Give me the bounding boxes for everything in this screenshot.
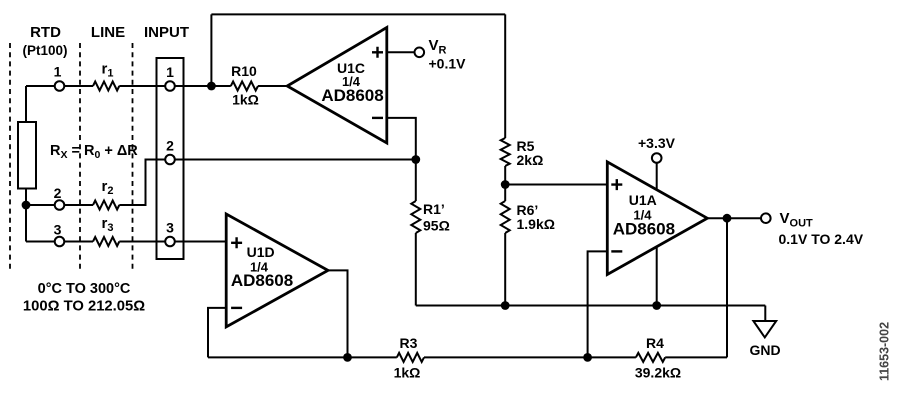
svg-text:RTD: RTD — [30, 24, 61, 41]
svg-text:R3: R3 — [400, 335, 418, 351]
svg-text:1.9kΩ: 1.9kΩ — [517, 216, 555, 232]
wire R10 left lead — [211, 85, 230, 87]
U1A plus sign — [611, 179, 622, 190]
terminal circle RTD 2 — [55, 200, 65, 210]
svg-text:11653-002: 11653-002 — [878, 322, 892, 381]
terminal circle RTD 3 — [55, 237, 65, 247]
svg-text:AD8608: AD8608 — [613, 220, 675, 239]
wire pin 1 to node A — [175, 85, 212, 87]
svg-text:AD8608: AD8608 — [231, 271, 293, 290]
op-amp U1D (right-pointing) — [226, 214, 328, 327]
svg-text:100Ω TO 212.05Ω: 100Ω TO 212.05Ω — [23, 299, 145, 315]
U1C plus sign — [372, 47, 383, 58]
terminal circle INPUT pin 3 — [165, 237, 175, 247]
resistor R10 — [231, 82, 258, 91]
wire top loop horizontal — [211, 13, 505, 15]
svg-text:U1D: U1D — [247, 244, 275, 260]
wire rail to GND — [764, 306, 766, 322]
svg-text:3: 3 — [166, 220, 174, 236]
wire middle rail — [416, 305, 766, 307]
wire lower rail middle segment — [424, 356, 636, 358]
wire lower rail right segment — [665, 356, 727, 358]
terminal circle INPUT pin 2 — [165, 155, 175, 165]
svg-text:0.1V TO 2.4V: 0.1V TO 2.4V — [779, 231, 864, 247]
wire R5 bottom to node C — [504, 166, 506, 201]
svg-text:R4: R4 — [646, 335, 664, 351]
wire U1D output down — [328, 270, 348, 357]
op-amp U1A (right-pointing) — [607, 162, 707, 275]
wire U1A output — [707, 217, 761, 219]
U1A minus sign — [611, 250, 622, 252]
wire RX bottom vertical — [25, 189, 27, 242]
junction node D (R3/R4/U1A-) — [583, 353, 592, 362]
wire top loop right vertical to R5 — [504, 14, 506, 138]
junction RTD node 2 — [22, 201, 31, 210]
resistor R6' — [501, 201, 510, 233]
terminal circle +3.3V — [652, 153, 662, 163]
wire R1' bottom to rail — [415, 233, 417, 306]
wire r3 right lead to pin 3 — [119, 241, 165, 243]
junction node A (pin1/R10/top loop) — [207, 82, 216, 91]
svg-text:1kΩ: 1kΩ — [232, 92, 259, 108]
wire node D up to U1A minus — [588, 251, 608, 357]
resistor r2 — [93, 201, 119, 210]
ground symbol — [753, 321, 776, 337]
svg-text:LINE: LINE — [91, 24, 125, 41]
wire RTD node 1 horizontal — [26, 85, 55, 87]
wire lower rail left segment — [208, 356, 397, 358]
svg-text:+0.1V: +0.1V — [429, 56, 467, 72]
svg-text:0°C TO 300°C: 0°C TO 300°C — [38, 281, 131, 297]
wire node C to U1A plus input — [505, 184, 607, 186]
wire +3.3V power line of U1A — [656, 163, 658, 306]
wire r1 right lead to pin 1 — [119, 85, 165, 87]
dashed boundary line LINE/INPUT — [132, 43, 134, 273]
terminal circle VR — [415, 48, 425, 58]
svg-text:INPUT: INPUT — [144, 24, 189, 41]
wire R6' bottom to rail — [504, 233, 506, 306]
wire pin 3 to U1D plus input — [175, 241, 226, 243]
junction node C (R5/R6'/U1A+) — [501, 180, 510, 189]
svg-text:3: 3 — [54, 222, 62, 238]
svg-text:U1A: U1A — [629, 192, 657, 208]
resistor R1' — [411, 201, 420, 233]
svg-text:R1’: R1’ — [423, 201, 445, 217]
resistor R3 — [397, 353, 424, 362]
U1C minus sign — [372, 117, 383, 119]
wire r1 left lead — [64, 85, 93, 87]
wire U1D minus feedback to lower rail — [208, 308, 226, 358]
terminal circle VOUT — [761, 213, 771, 223]
connector INPUT box — [157, 58, 184, 259]
svg-text:GND: GND — [749, 342, 780, 358]
wire pin 2 to feedback node — [175, 159, 416, 161]
wire r2 left lead — [64, 204, 93, 206]
svg-text:1kΩ: 1kΩ — [394, 365, 421, 381]
resistor RX (RTD element) — [18, 122, 36, 189]
svg-text:R10: R10 — [231, 63, 257, 79]
svg-text:(Pt100): (Pt100) — [22, 43, 67, 58]
terminal circle RTD 1 — [55, 81, 65, 91]
wire r3 left lead — [64, 241, 93, 243]
wire U1C minus input feedback — [387, 118, 416, 160]
svg-text:1: 1 — [166, 64, 174, 80]
resistor R4 — [636, 353, 665, 362]
wire node A up — [210, 14, 212, 86]
svg-text:95Ω: 95Ω — [423, 218, 450, 234]
svg-text:39.2kΩ: 39.2kΩ — [635, 365, 681, 381]
resistor R5 — [501, 138, 510, 166]
U1D plus sign — [231, 237, 242, 248]
junction U1D output/lower rail — [343, 353, 352, 362]
svg-text:2: 2 — [54, 185, 62, 201]
junction rail/R6' — [501, 301, 510, 310]
wire VOUT branch down to lower rail — [726, 218, 728, 357]
svg-text:+3.3V: +3.3V — [638, 135, 676, 151]
resistor r1 — [93, 82, 119, 91]
svg-text:1: 1 — [54, 64, 62, 80]
wire RTD node 3 horizontal — [26, 241, 55, 243]
resistor r3 — [93, 237, 119, 246]
wire U1C plus input to VR — [387, 51, 415, 53]
svg-text:AD8608: AD8608 — [321, 86, 383, 105]
dashed boundary line left of RTD region — [9, 43, 11, 273]
svg-text:2kΩ: 2kΩ — [517, 152, 544, 168]
terminal circle INPUT pin 1 — [165, 81, 175, 91]
op-amp U1C (left-pointing) — [287, 28, 387, 144]
wire node B down to R1' — [415, 160, 417, 202]
junction node B (pin2/U1C-/R1') — [411, 155, 420, 164]
wire r2 right lead with riser to pin 2 — [119, 160, 165, 206]
dashed boundary line RTD/LINE — [79, 43, 81, 273]
svg-text:2: 2 — [166, 138, 174, 154]
junction rail/U1A power return — [652, 301, 661, 310]
wire RTD left vertical to RX top — [25, 86, 27, 122]
U1D minus sign — [231, 307, 242, 309]
wire R10 right lead to U1C output — [258, 85, 287, 87]
wire RTD node 2 horizontal — [26, 204, 55, 206]
junction node VOUT branch — [723, 214, 732, 223]
